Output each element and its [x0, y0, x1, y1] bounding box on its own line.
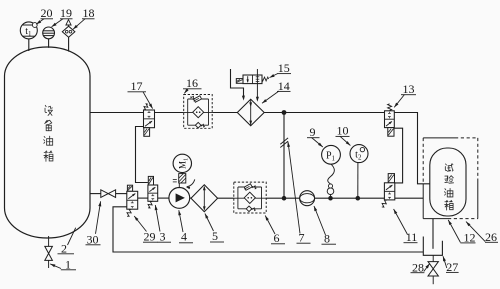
svg-text:14: 14 [278, 79, 290, 93]
wire: stub to level gauge [48, 39, 50, 48]
wire: valve3 to pump [158, 197, 169, 199]
shutoff valve 30 (bowtie) [101, 190, 116, 198]
wire: valve29 drain to return line [113, 207, 423, 252]
label 30 [86, 232, 101, 246]
collector cup [423, 237, 442, 256]
leader 7 [288, 142, 300, 234]
solenoid valve 13 [385, 104, 395, 136]
label 13 [401, 82, 416, 96]
label 4 [179, 230, 193, 244]
wire: valve17 drain to valve 3 [136, 127, 148, 183]
leader 8 [314, 206, 326, 235]
svg-text:17: 17 [131, 79, 143, 93]
leader 3 [155, 205, 160, 232]
cooler 5 (diamond) [191, 185, 218, 212]
wire: tank drain stub [48, 236, 50, 246]
node D (throttle to return line junction) [282, 196, 287, 201]
leader 12 [448, 220, 460, 243]
node A (junction) [282, 110, 287, 115]
air breather filter (18) [62, 20, 75, 38]
svg-text:18: 18 [83, 6, 95, 20]
drain valve 2 (bowtie) [45, 246, 53, 268]
wire: throttle branch vertical [283, 113, 285, 199]
leader 6 [265, 216, 275, 235]
svg-text:3: 3 [160, 230, 166, 244]
leader 19 [52, 19, 63, 27]
label 8 [322, 232, 337, 246]
label 11 [404, 230, 418, 244]
solenoid valve 29 [127, 185, 138, 216]
wire: box16 to filter 14 [212, 112, 237, 114]
wire: valve29 to valve3 [138, 197, 148, 199]
svg-text:5: 5 [212, 229, 218, 243]
solenoid valve 3 [148, 176, 158, 208]
svg-text:27: 27 [446, 260, 458, 274]
wire: meter to valve11 and test tank [315, 197, 424, 199]
label 6 [271, 231, 285, 245]
leader 20 [36, 19, 44, 24]
label 27 [446, 260, 459, 274]
svg-text:10: 10 [337, 124, 349, 138]
svg-text:28: 28 [412, 260, 424, 274]
drain valve 27/28 (bowtie) [428, 255, 438, 284]
svg-text:12: 12 [464, 230, 476, 244]
label 18 [82, 6, 95, 20]
wire: pump to cooler 5 [190, 197, 191, 199]
leader 29 [134, 216, 146, 232]
equipment oil tank (设备油箱) [5, 47, 91, 238]
svg-text:1: 1 [65, 257, 71, 271]
label 10 [336, 124, 350, 138]
svg-text:19: 19 [60, 6, 72, 20]
leader 28 [424, 264, 430, 272]
leader 11 [394, 209, 408, 235]
pump 4 [169, 188, 190, 209]
label 3 [158, 230, 172, 244]
leader 17 [143, 92, 153, 109]
wire: filter14 to node A [264, 112, 284, 114]
label 17 [128, 79, 147, 93]
label 29 [143, 230, 158, 244]
svg-text:16: 16 [186, 76, 198, 90]
svg-text:29: 29 [144, 230, 156, 244]
leader 9 [312, 138, 323, 148]
test chamber box 12/26 [423, 138, 478, 219]
label 16 [183, 76, 202, 90]
leader 16 [184, 89, 188, 94]
leader 15 [270, 74, 278, 78]
wire: tank to shutoff valve 30 [90, 193, 101, 195]
label 28 [411, 260, 425, 274]
pressure gauge P1 (9) [322, 145, 341, 164]
label 15 [277, 61, 291, 75]
leader 26 [466, 222, 485, 242]
wire: cooler to filter box 6 [218, 197, 234, 199]
svg-text:20: 20 [41, 6, 53, 20]
test oil tank capsule (试验油箱) [430, 148, 466, 216]
wire: valve30 to valve29 [116, 193, 127, 195]
svg-text:7: 7 [299, 231, 305, 245]
wire: valve15 outlet down into filter14 [256, 69, 259, 102]
filter assembly 16 (dashed box) [184, 95, 213, 129]
solenoid valve 17 [144, 104, 155, 137]
tank label text 设备油箱 [44, 105, 53, 161]
leader 4 [179, 210, 183, 232]
wire: node A to valve 13 [284, 112, 385, 114]
filter assembly 6 (dashed box) [234, 182, 266, 213]
gauge isolator cock [327, 164, 334, 198]
wire: test tank bottom outlet [432, 219, 434, 249]
wire: t2 gauge stem [357, 163, 359, 199]
label 2 [58, 242, 75, 256]
label 5 [210, 229, 224, 243]
wire: stub to breather [68, 37, 70, 52]
motor M1 [173, 154, 191, 172]
label 1 [61, 257, 76, 271]
coupling shaft [173, 173, 195, 190]
leader 13 [394, 95, 404, 108]
leader 10 [340, 136, 350, 145]
svg-text:4: 4 [181, 230, 187, 244]
level gauge (19) [43, 27, 55, 39]
svg-text:11: 11 [406, 230, 418, 244]
wire: valve13 to test tank inlet [394, 113, 430, 184]
leader 5 [205, 214, 214, 232]
label 26 [485, 230, 498, 244]
svg-text:30: 30 [87, 232, 99, 246]
svg-text:13: 13 [403, 82, 415, 96]
leader 2 [68, 228, 76, 245]
solenoid valve 15 [236, 75, 268, 84]
label 12 [460, 230, 475, 244]
leader 27 [443, 256, 447, 268]
test tank label text 试验油箱 [444, 164, 453, 210]
throttle valve 7 (slashes) [280, 138, 288, 148]
wire: valve17 to filter box 16 [155, 112, 184, 114]
label 20 [41, 6, 54, 20]
thermometer t2 (10) [350, 145, 368, 163]
label 19 [60, 6, 73, 20]
label 7 [297, 231, 311, 245]
wire: stub to thermometer t1 [28, 39, 30, 51]
label 14 [277, 79, 291, 93]
flow meter 8 [300, 191, 315, 206]
svg-text:15: 15 [278, 61, 290, 75]
leader 14 [262, 91, 279, 103]
label 9 [307, 125, 320, 139]
wire: valve15 vent line into filter14 [231, 69, 245, 101]
thermometer t1 (20) [20, 22, 37, 39]
wire: valve13 drain to valve11 (bracket) [394, 128, 402, 183]
main filter 14 (diamond) [237, 99, 264, 126]
node C (junction to t2) [356, 196, 361, 201]
leader 30 [96, 201, 101, 234]
leader 18 [73, 19, 85, 30]
wire: tank to valve 17 (top supply line) [90, 112, 144, 114]
wire: box6 to flow meter [266, 197, 300, 199]
leader 1 [50, 264, 61, 269]
svg-text:9: 9 [310, 125, 316, 139]
solenoid valve 11 [382, 174, 395, 208]
node B (junction to P1) [328, 196, 333, 201]
